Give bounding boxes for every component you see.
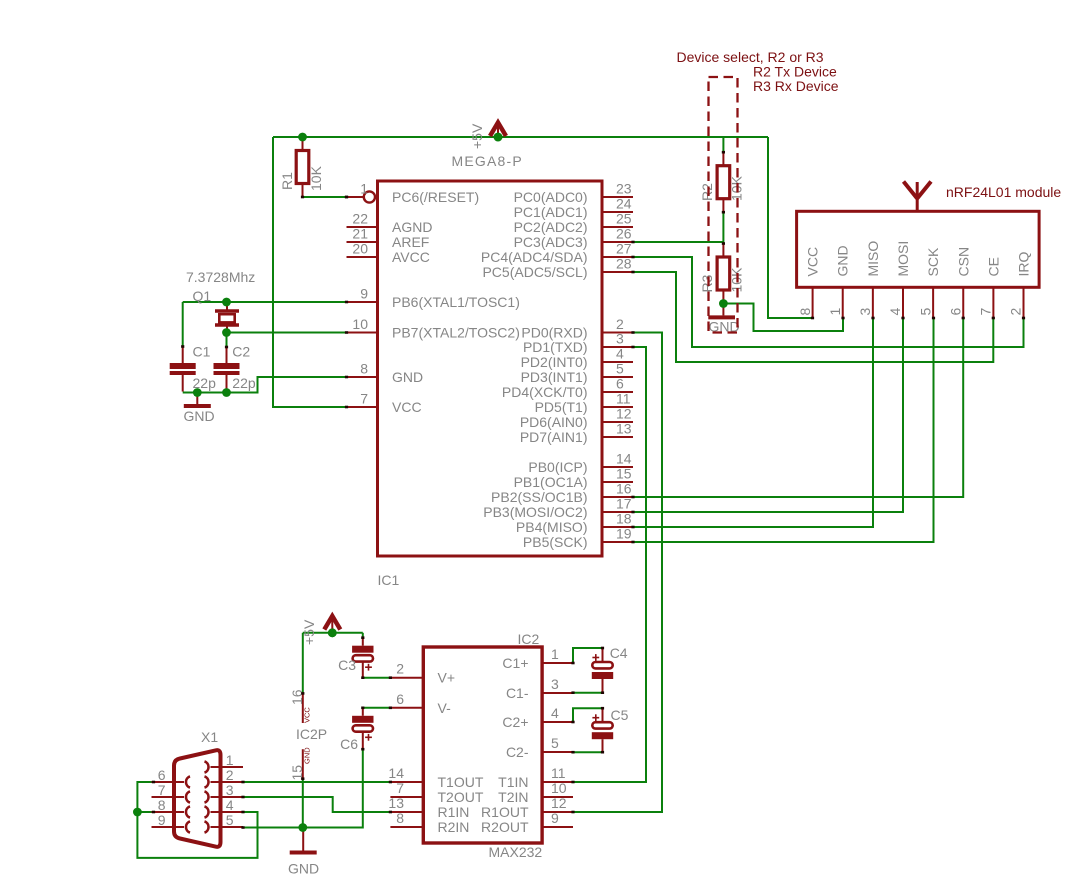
svg-text:1: 1 bbox=[360, 181, 368, 197]
svg-text:MISO: MISO bbox=[865, 241, 881, 277]
svg-text:4: 4 bbox=[551, 705, 559, 721]
svg-text:6: 6 bbox=[396, 691, 404, 707]
svg-text:3: 3 bbox=[616, 331, 624, 347]
svg-text:PC5(ADC5/SCL): PC5(ADC5/SCL) bbox=[482, 264, 587, 280]
svg-text:10: 10 bbox=[352, 316, 368, 332]
svg-text:PC4(ADC4/SDA): PC4(ADC4/SDA) bbox=[481, 249, 588, 265]
svg-text:+5V: +5V bbox=[301, 619, 317, 645]
svg-text:PB7(XTAL2/TOSC2): PB7(XTAL2/TOSC2) bbox=[392, 325, 520, 341]
svg-text:V+: V+ bbox=[438, 670, 456, 686]
svg-text:6: 6 bbox=[158, 767, 166, 783]
svg-text:PB1(OC1A): PB1(OC1A) bbox=[514, 474, 588, 490]
svg-text:VCC: VCC bbox=[303, 707, 312, 723]
svg-text:R1: R1 bbox=[279, 172, 295, 190]
svg-text:MOSI: MOSI bbox=[895, 241, 911, 277]
svg-text:CE: CE bbox=[985, 257, 1001, 276]
svg-text:23: 23 bbox=[616, 181, 632, 197]
svg-text:Q1: Q1 bbox=[193, 288, 212, 304]
svg-text:C4: C4 bbox=[610, 645, 628, 661]
svg-text:PC2(ADC2): PC2(ADC2) bbox=[514, 219, 588, 235]
svg-text:7.3728Mhz: 7.3728Mhz bbox=[186, 269, 255, 285]
svg-text:26: 26 bbox=[616, 226, 632, 242]
svg-text:13: 13 bbox=[616, 421, 632, 437]
svg-text:1: 1 bbox=[226, 752, 234, 768]
svg-text:GND: GND bbox=[288, 861, 319, 877]
svg-text:AREF: AREF bbox=[392, 234, 429, 250]
svg-text:9: 9 bbox=[360, 286, 368, 302]
svg-text:8: 8 bbox=[360, 361, 368, 377]
svg-text:SCK: SCK bbox=[925, 247, 941, 276]
svg-text:25: 25 bbox=[616, 211, 632, 227]
svg-text:PC6(/RESET): PC6(/RESET) bbox=[392, 189, 479, 205]
svg-text:3: 3 bbox=[857, 308, 873, 316]
svg-text:6: 6 bbox=[616, 376, 624, 392]
svg-text:C6: C6 bbox=[340, 736, 358, 752]
svg-text:13: 13 bbox=[388, 795, 404, 811]
svg-text:PB3(MOSI/OC2): PB3(MOSI/OC2) bbox=[483, 504, 587, 520]
svg-text:5: 5 bbox=[616, 361, 624, 377]
svg-text:C1+: C1+ bbox=[502, 655, 528, 671]
svg-text:PD7(AIN1): PD7(AIN1) bbox=[520, 429, 588, 445]
svg-text:MEGA8-P: MEGA8-P bbox=[452, 153, 523, 169]
svg-text:8: 8 bbox=[797, 308, 813, 316]
svg-text:R3 Rx Device: R3 Rx Device bbox=[753, 78, 839, 94]
svg-text:PB2(SS/OC1B): PB2(SS/OC1B) bbox=[491, 489, 587, 505]
svg-text:R2OUT: R2OUT bbox=[481, 819, 529, 835]
svg-text:11: 11 bbox=[551, 765, 566, 781]
svg-text:T2IN: T2IN bbox=[498, 789, 528, 805]
svg-text:28: 28 bbox=[616, 256, 632, 272]
svg-text:10K: 10K bbox=[308, 165, 324, 191]
svg-text:8: 8 bbox=[396, 810, 404, 826]
svg-text:16: 16 bbox=[289, 689, 305, 705]
svg-text:4: 4 bbox=[226, 797, 234, 813]
svg-text:7: 7 bbox=[396, 780, 404, 796]
svg-text:C2: C2 bbox=[232, 344, 250, 360]
svg-text:VCC: VCC bbox=[805, 247, 821, 277]
svg-text:C2+: C2+ bbox=[502, 714, 528, 730]
svg-text:PD3(INT1): PD3(INT1) bbox=[521, 369, 588, 385]
svg-text:IC1: IC1 bbox=[378, 572, 400, 588]
svg-text:9: 9 bbox=[551, 810, 559, 826]
svg-text:19: 19 bbox=[616, 526, 632, 542]
svg-text:22: 22 bbox=[352, 211, 368, 227]
svg-text:C1-: C1- bbox=[506, 685, 529, 701]
svg-text:7: 7 bbox=[360, 391, 368, 407]
svg-text:21: 21 bbox=[352, 226, 368, 242]
svg-text:T1IN: T1IN bbox=[498, 774, 528, 790]
svg-text:GND: GND bbox=[303, 747, 312, 764]
svg-text:R2IN: R2IN bbox=[438, 819, 470, 835]
svg-text:10: 10 bbox=[551, 780, 567, 796]
svg-text:PD2(INT0): PD2(INT0) bbox=[521, 354, 588, 370]
svg-text:5: 5 bbox=[226, 812, 234, 828]
svg-text:PB4(MISO): PB4(MISO) bbox=[516, 519, 588, 535]
svg-text:15: 15 bbox=[616, 466, 632, 482]
svg-text:GND: GND bbox=[184, 408, 215, 424]
svg-text:R3: R3 bbox=[699, 274, 715, 292]
svg-text:6: 6 bbox=[947, 308, 963, 316]
svg-text:AVCC: AVCC bbox=[392, 249, 430, 265]
svg-text:18: 18 bbox=[616, 511, 632, 527]
svg-text:PD1(TXD): PD1(TXD) bbox=[523, 339, 588, 355]
svg-text:16: 16 bbox=[616, 481, 632, 497]
svg-text:9: 9 bbox=[158, 812, 166, 828]
svg-text:PD4(XCK/T0): PD4(XCK/T0) bbox=[502, 384, 588, 400]
svg-text:nRF24L01 module: nRF24L01 module bbox=[946, 184, 1061, 200]
svg-text:GND: GND bbox=[835, 245, 851, 276]
svg-text:PB6(XTAL1/TOSC1): PB6(XTAL1/TOSC1) bbox=[392, 294, 520, 310]
svg-text:27: 27 bbox=[616, 241, 632, 257]
svg-text:2: 2 bbox=[396, 661, 404, 677]
svg-text:PC3(ADC3): PC3(ADC3) bbox=[514, 234, 588, 250]
svg-text:AGND: AGND bbox=[392, 219, 432, 235]
svg-text:14: 14 bbox=[616, 451, 632, 467]
svg-text:C2-: C2- bbox=[506, 744, 529, 760]
svg-text:17: 17 bbox=[616, 496, 632, 512]
svg-text:T1OUT: T1OUT bbox=[438, 774, 484, 790]
svg-text:20: 20 bbox=[352, 241, 368, 257]
svg-text:8: 8 bbox=[158, 797, 166, 813]
svg-text:4: 4 bbox=[616, 346, 624, 362]
svg-text:1: 1 bbox=[551, 646, 559, 662]
svg-text:X1: X1 bbox=[201, 729, 218, 745]
svg-text:V-: V- bbox=[438, 700, 452, 716]
svg-text:7: 7 bbox=[978, 308, 994, 316]
svg-text:IC2: IC2 bbox=[518, 631, 540, 647]
svg-text:CSN: CSN bbox=[955, 247, 971, 277]
svg-text:2: 2 bbox=[1008, 308, 1024, 316]
svg-text:3: 3 bbox=[226, 782, 234, 798]
svg-text:T2OUT: T2OUT bbox=[438, 789, 484, 805]
svg-text:C1: C1 bbox=[193, 344, 211, 360]
svg-text:PB0(ICP): PB0(ICP) bbox=[528, 459, 587, 475]
svg-text:5: 5 bbox=[551, 735, 559, 751]
svg-text:+5V: +5V bbox=[469, 123, 485, 149]
svg-text:IRQ: IRQ bbox=[1016, 252, 1032, 277]
svg-text:4: 4 bbox=[887, 308, 903, 316]
svg-text:22p: 22p bbox=[232, 375, 256, 391]
svg-text:C3: C3 bbox=[338, 657, 356, 673]
svg-text:PD5(T1): PD5(T1) bbox=[535, 399, 588, 415]
svg-text:PC0(ADC0): PC0(ADC0) bbox=[514, 189, 588, 205]
svg-text:1: 1 bbox=[827, 308, 843, 316]
svg-text:7: 7 bbox=[158, 782, 166, 798]
svg-text:GND: GND bbox=[392, 369, 423, 385]
svg-text:12: 12 bbox=[616, 406, 632, 422]
svg-text:5: 5 bbox=[917, 308, 933, 316]
svg-text:PB5(SCK): PB5(SCK) bbox=[523, 534, 588, 550]
svg-text:PD6(AIN0): PD6(AIN0) bbox=[520, 414, 588, 430]
svg-text:VCC: VCC bbox=[392, 399, 422, 415]
svg-text:C5: C5 bbox=[611, 707, 629, 723]
svg-text:12: 12 bbox=[551, 795, 567, 811]
svg-text:MAX232: MAX232 bbox=[489, 844, 543, 860]
svg-text:R2: R2 bbox=[699, 183, 715, 201]
svg-text:R1IN: R1IN bbox=[438, 804, 470, 820]
svg-text:24: 24 bbox=[616, 196, 632, 212]
svg-text:11: 11 bbox=[616, 391, 631, 407]
svg-text:3: 3 bbox=[551, 676, 559, 692]
svg-text:IC2P: IC2P bbox=[296, 726, 327, 742]
svg-text:14: 14 bbox=[388, 765, 404, 781]
svg-text:PC1(ADC1): PC1(ADC1) bbox=[514, 204, 588, 220]
svg-text:R1OUT: R1OUT bbox=[481, 804, 529, 820]
svg-text:2: 2 bbox=[226, 767, 234, 783]
